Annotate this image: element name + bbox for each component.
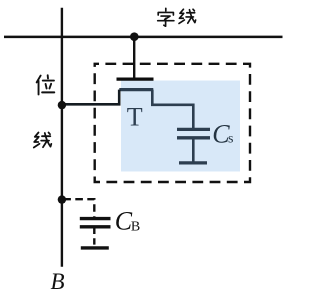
wire: dashed link to CB bbox=[65, 199, 95, 217]
label: bit line 线 bbox=[34, 133, 52, 148]
node: word line / gate junction bbox=[130, 32, 139, 41]
label: bit line 位 bbox=[37, 75, 55, 94]
svg-text:T: T bbox=[127, 103, 143, 132]
wire: gate lead bbox=[133, 37, 135, 78]
transistor T: channel bar bbox=[119, 88, 153, 91]
label: capacitor CS bbox=[212, 119, 233, 148]
label: word line 字线 bbox=[158, 8, 196, 26]
dram cell boundary (dashed box) bbox=[95, 64, 250, 182]
wire: bit line (vertical) bbox=[61, 8, 63, 267]
label: capacitor CB bbox=[115, 207, 140, 236]
svg-text:B: B bbox=[131, 220, 140, 235]
wire: source leg to bit line bbox=[62, 90, 119, 105]
wire: word line (horizontal) bbox=[4, 36, 283, 39]
node: bit line / source junction bbox=[58, 101, 66, 109]
svg-text:s: s bbox=[228, 132, 233, 147]
capacitor CS bbox=[177, 129, 210, 163]
wire: drain leg to storage capacitor bbox=[152, 90, 193, 129]
transistor T: gate bar bbox=[117, 77, 154, 80]
node: bit line / CB junction bbox=[58, 195, 66, 203]
capacitor CB bbox=[80, 219, 111, 248]
svg-text:B: B bbox=[51, 269, 65, 294]
cell highlight region (light blue) bbox=[121, 81, 240, 172]
